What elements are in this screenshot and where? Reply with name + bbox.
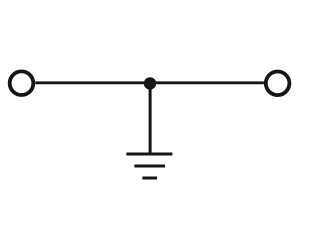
ground — [126, 154, 172, 178]
wire vertical — [149, 83, 152, 154]
junction node — [144, 77, 156, 89]
terminal circle left — [10, 71, 34, 95]
terminal circle right — [266, 72, 290, 96]
wire horizontal — [35, 81, 264, 84]
